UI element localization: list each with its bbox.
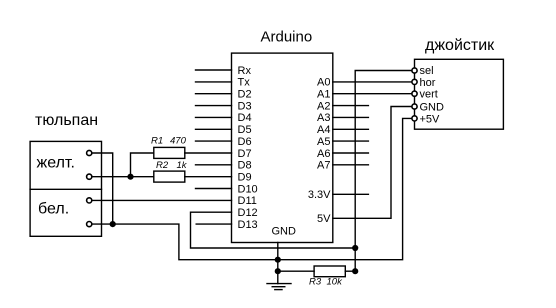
- svg-text:sel: sel: [420, 65, 434, 77]
- svg-text:джойстик: джойстик: [425, 37, 495, 54]
- pin stub D4: [196, 116, 232, 118]
- svg-text:желт.: желт.: [37, 155, 75, 172]
- svg-text:10k: 10k: [327, 277, 344, 288]
- wire: Arduino A0 to joystick hor: [333, 81, 412, 83]
- svg-text:GND: GND: [420, 101, 445, 113]
- terminal circle joystick sel: [412, 68, 417, 73]
- junction dot: GND / +5V rail node: [275, 257, 281, 263]
- svg-text:+5V: +5V: [420, 113, 441, 125]
- svg-text:5V: 5V: [317, 213, 331, 225]
- svg-text:A7: A7: [317, 160, 330, 172]
- svg-text:бел.: бел.: [38, 201, 69, 218]
- terminal circle joystick +5V: [412, 116, 417, 121]
- svg-text:A4: A4: [317, 124, 330, 136]
- pin stub A4: [333, 128, 369, 130]
- pin stub D6: [196, 140, 232, 142]
- pin stub Tx: [196, 81, 232, 83]
- divider line of тюльпан box: [30, 188, 101, 190]
- svg-text:hor: hor: [420, 77, 436, 89]
- junction dot: GND / R3 left node: [275, 268, 281, 274]
- resistor R2: [154, 171, 185, 182]
- terminal circle joystick vert: [412, 91, 417, 96]
- pin stub 3.3V: [333, 193, 369, 195]
- svg-text:A3: A3: [317, 112, 330, 124]
- svg-text:D13: D13: [238, 219, 258, 231]
- svg-text:D4: D4: [238, 112, 252, 124]
- svg-text:A5: A5: [317, 136, 330, 148]
- wire: joystick sel left and down to node on D12 rail: [355, 71, 411, 272]
- terminal circle тюльпан white-bottom: [87, 222, 92, 227]
- ground symbol bar 2: [272, 286, 285, 288]
- pin stub A7: [333, 164, 369, 166]
- svg-text:vert: vert: [420, 89, 438, 101]
- svg-text:A6: A6: [317, 148, 330, 160]
- Arduino U1 box: [232, 53, 333, 242]
- svg-text:Rx: Rx: [238, 65, 252, 77]
- junction dot: R3 right / sel node: [352, 268, 358, 274]
- svg-text:470: 470: [170, 136, 187, 147]
- pin stub D10: [196, 188, 232, 190]
- joystick box: [415, 59, 504, 129]
- pin stub D8: [196, 164, 232, 166]
- pin stub D5: [196, 128, 232, 130]
- pin stub A5: [333, 140, 369, 142]
- wire: white-top terminal to Arduino D11: [92, 199, 231, 201]
- pin stub D3: [196, 105, 232, 107]
- wire: R1 right terminal to Arduino D7: [185, 152, 232, 154]
- wire: white-bottom terminal right, down and along bottom to joystick +5V: [92, 118, 411, 259]
- resistor R3: [314, 266, 345, 277]
- junction dot: R1/R2 left node: [127, 174, 133, 180]
- pin stub A2: [333, 105, 369, 107]
- svg-text:1k: 1k: [177, 160, 188, 171]
- RCA connector box "тюльпан": [30, 141, 101, 236]
- wire: jog from node up to R1 left terminal: [131, 153, 154, 177]
- svg-text:D12: D12: [238, 207, 258, 219]
- svg-text:R3: R3: [309, 277, 322, 288]
- svg-text:Arduino: Arduino: [261, 29, 313, 46]
- ground symbol bar 1: [267, 283, 291, 285]
- terminal circle тюльпан yellow-bottom: [87, 174, 92, 179]
- svg-text:D6: D6: [238, 136, 252, 148]
- pin stub A6: [333, 152, 369, 154]
- svg-text:A0: A0: [317, 77, 330, 89]
- svg-text:D3: D3: [238, 100, 252, 112]
- svg-text:Tx: Tx: [238, 77, 251, 89]
- wire: ground node to R3 left terminal: [278, 270, 314, 272]
- pin stub D2: [196, 93, 232, 95]
- terminal circle тюльпан yellow-top: [87, 150, 92, 155]
- wire: R2 right terminal to Arduino D9: [185, 176, 232, 178]
- svg-text:D9: D9: [238, 172, 252, 184]
- wire: yellow-bottom terminal to node at R2 left: [92, 176, 154, 178]
- svg-text:D10: D10: [238, 183, 258, 195]
- terminal circle joystick hor: [412, 79, 417, 84]
- svg-text:тюльпан: тюльпан: [35, 112, 98, 129]
- svg-text:R1: R1: [151, 136, 163, 147]
- svg-text:D7: D7: [238, 148, 252, 160]
- resistor R1: [154, 147, 185, 158]
- pin stub Rx: [196, 69, 232, 71]
- svg-text:GND: GND: [272, 226, 297, 238]
- terminal circle тюльпан white-top: [87, 198, 92, 203]
- svg-text:D11: D11: [238, 195, 257, 207]
- ground symbol bar 3: [275, 289, 282, 291]
- pin stub A3: [333, 116, 369, 118]
- svg-text:3.3V: 3.3V: [308, 189, 331, 201]
- pin stub D13: [196, 223, 231, 225]
- wire: yellow-top terminal to shield bus (down to white-bottom row): [92, 153, 113, 224]
- wire: Arduino GND pin down to ground: [277, 243, 279, 284]
- junction dot: shield bus on white-bottom wire: [110, 221, 116, 227]
- junction dot: D12/sel rail node: [352, 245, 358, 251]
- svg-text:D8: D8: [238, 160, 252, 172]
- wire: Arduino D12 left, down and right to node with sel/R3: [191, 212, 356, 248]
- wire: Arduino A1 to joystick vert: [333, 93, 412, 95]
- wire: R3 right terminal to sel node: [345, 270, 355, 272]
- wire: Arduino 5V right, up to joystick GND: [333, 107, 412, 219]
- svg-text:A2: A2: [317, 100, 330, 112]
- svg-text:R2: R2: [156, 160, 169, 171]
- svg-text:D5: D5: [238, 124, 252, 136]
- terminal circle joystick GND: [412, 104, 417, 109]
- svg-text:D2: D2: [238, 89, 252, 101]
- svg-text:A1: A1: [317, 89, 330, 101]
